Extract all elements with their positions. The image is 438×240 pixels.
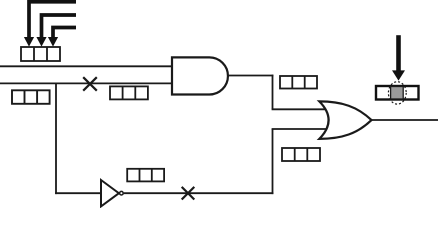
wire: OR gate top input xyxy=(272,108,330,110)
wire: inverter output run xyxy=(124,192,274,194)
X kill mark 2 (on inverter output run) xyxy=(182,187,195,200)
register box D (3 cells, above inverter output run) xyxy=(127,169,164,182)
register box G (3 cells, output side, middle cell highlighted) xyxy=(376,86,419,100)
stall arrow 3 (elbow, rightmost) xyxy=(48,28,76,47)
stall arrow 1 (elbow, leftmost) xyxy=(24,2,76,47)
register box F (3 cells, on OR bottom input path) xyxy=(282,148,320,161)
register box E (3 cells, on AND output path) xyxy=(280,76,317,89)
wire: AND output drop xyxy=(272,75,274,110)
stall arrow 2 (elbow, middle) xyxy=(36,15,76,47)
wire: OR gate bottom input xyxy=(272,128,330,130)
op-amp AND gate U1 xyxy=(172,57,228,94)
X kill mark 1 (on second input bus) xyxy=(83,77,97,91)
wire: bottom feedback run into inverter input xyxy=(55,192,102,194)
dashed ellipse highlight around middle cell of box G xyxy=(388,82,406,104)
op-amp OR gate U2 xyxy=(319,101,371,138)
wire: vertical tap from second bus down to feedback run xyxy=(55,83,57,194)
wire: OR gate output xyxy=(372,119,438,121)
wire: top input bus to AND gate xyxy=(0,65,174,67)
insert arrow (top right, pointing into box G) xyxy=(392,35,405,80)
wire: AND gate output run xyxy=(228,75,273,77)
register box A (3 cells, under stall arrows) xyxy=(21,47,60,61)
inverter U3 triangle xyxy=(101,180,119,206)
wire: feedback rise to OR gate xyxy=(272,129,274,194)
inverter U3 bubble xyxy=(120,191,124,195)
register box B (3 cells, left under second bus) xyxy=(12,90,50,104)
wire: second input bus to AND gate xyxy=(0,82,174,84)
register box C (3 cells, on second bus before AND) xyxy=(110,86,148,99)
